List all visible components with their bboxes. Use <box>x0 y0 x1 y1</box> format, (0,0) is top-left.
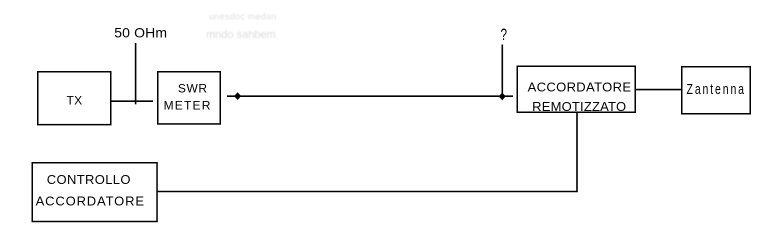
wire SWR METER to ACCORDATORE <box>227 95 513 97</box>
wire CONTROLLO to ACCORDATORE (L shaped) <box>157 113 578 192</box>
svg-text:REMOTIZZATO: REMOTIZZATO <box>532 99 626 114</box>
box TX <box>38 72 111 125</box>
svg-text:Zantenna: Zantenna <box>687 80 746 97</box>
wire leader from 50 OHm label <box>135 43 137 104</box>
box ACCORDATORE REMOTIZZATO <box>517 66 635 112</box>
wire question mark leader <box>501 45 503 94</box>
svg-text:ACCORDATORE: ACCORDATORE <box>36 193 145 208</box>
svg-text:unesdoc medsn: unesdoc medsn <box>209 12 276 22</box>
svg-text:SWR: SWR <box>178 81 208 95</box>
svg-text:ACCORDATORE: ACCORDATORE <box>528 79 632 94</box>
svg-text:50 OHm: 50 OHm <box>114 24 167 40</box>
svg-text:CONTROLLO: CONTROLLO <box>47 172 131 187</box>
box Zantenna <box>682 67 751 114</box>
svg-text:?: ? <box>501 25 508 44</box>
svg-text:METER: METER <box>164 99 212 113</box>
box CONTROLLO ACCORDATORE <box>32 163 157 222</box>
junction diamond right <box>499 93 506 101</box>
svg-text:TX: TX <box>67 94 83 108</box>
svg-text:mndo sahbem: mndo sahbem <box>206 29 276 41</box>
wire TX to SWR METER <box>112 100 154 102</box>
box SWR METER <box>158 72 221 124</box>
wire ACCORDATORE to Zantenna <box>636 89 681 91</box>
junction diamond left <box>234 92 241 100</box>
